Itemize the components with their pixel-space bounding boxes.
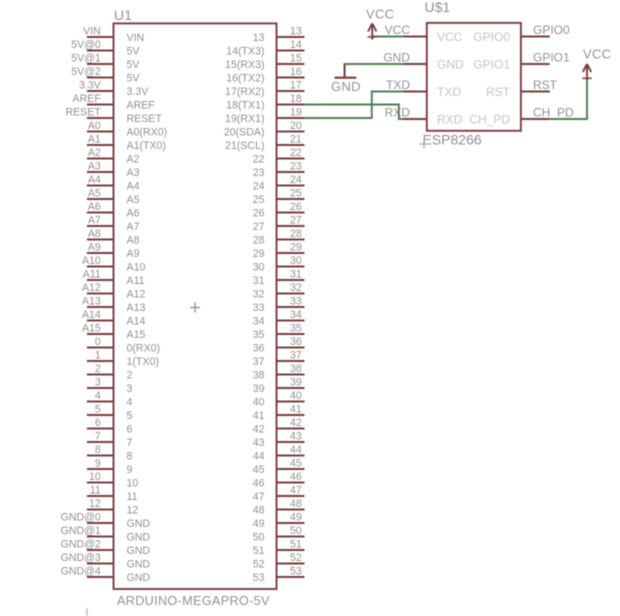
U1 pin right: 41 — [253, 403, 305, 422]
svg-text:U$1: U$1 — [425, 0, 451, 15]
svg-text:49: 49 — [253, 518, 265, 530]
svg-text:22: 22 — [290, 147, 302, 159]
svg-text:AREF: AREF — [73, 93, 102, 105]
svg-text:4: 4 — [95, 390, 101, 402]
svg-text:5V@0: 5V@0 — [71, 39, 101, 51]
svg-text:47: 47 — [253, 491, 265, 503]
wire net RX: U1 pin 19(RX1) to U$1 TXD — [305, 92, 404, 119]
svg-text:25: 25 — [253, 194, 265, 206]
U$1 pin right: GPIO1 — [473, 50, 570, 71]
svg-text:40: 40 — [290, 390, 302, 402]
svg-text:A13: A13 — [127, 302, 146, 314]
svg-text:VCC: VCC — [583, 47, 611, 62]
svg-text:GND@0: GND@0 — [61, 511, 101, 523]
svg-text:RESET: RESET — [65, 106, 101, 118]
svg-text:44: 44 — [290, 444, 302, 456]
svg-text:51: 51 — [253, 545, 265, 557]
svg-text:30: 30 — [290, 255, 302, 267]
svg-text:19: 19 — [290, 106, 302, 118]
svg-text:TXD: TXD — [437, 85, 461, 99]
U1 pin 4 left: 5V@2 — [71, 66, 140, 85]
svg-text:RESET: RESET — [127, 113, 163, 125]
svg-text:39: 39 — [290, 376, 302, 388]
U1 pin 1 left: VIN — [83, 25, 144, 44]
svg-text:11: 11 — [90, 484, 101, 496]
svg-text:5: 5 — [95, 403, 101, 415]
svg-text:48: 48 — [253, 505, 265, 517]
svg-text:36: 36 — [253, 343, 265, 355]
svg-text:21: 21 — [290, 133, 302, 145]
svg-text:A1(TX0): A1(TX0) — [127, 140, 166, 152]
svg-text:25: 25 — [290, 187, 302, 199]
svg-text:43: 43 — [253, 437, 265, 449]
svg-text:A6: A6 — [88, 201, 101, 213]
svg-text:A4: A4 — [88, 174, 101, 186]
svg-text:GND: GND — [127, 532, 151, 544]
svg-text:GND: GND — [331, 79, 361, 94]
U1 pin right: 16 — [226, 66, 304, 85]
svg-text:30: 30 — [253, 262, 265, 274]
U$1 pin right: CH_PD — [469, 105, 574, 126]
svg-text:A6: A6 — [127, 208, 140, 220]
svg-text:GND: GND — [437, 57, 464, 71]
svg-text:A1: A1 — [88, 133, 101, 145]
svg-text:RXD: RXD — [437, 112, 463, 126]
svg-text:44: 44 — [253, 451, 265, 463]
svg-text:GND: GND — [383, 50, 410, 64]
svg-text:9: 9 — [95, 457, 101, 469]
svg-text:15(RX3): 15(RX3) — [225, 59, 264, 71]
svg-text:3: 3 — [127, 383, 133, 395]
U1 pin 9 left: A1 — [87, 133, 166, 152]
svg-text:14(TX3): 14(TX3) — [226, 46, 264, 58]
svg-text:52: 52 — [290, 552, 302, 564]
U1 pin right: 46 — [253, 471, 305, 490]
svg-text:15: 15 — [290, 52, 302, 64]
U1 pin 28 left: 4 — [87, 390, 133, 409]
svg-text:A3: A3 — [88, 160, 101, 172]
svg-text:GND: GND — [127, 559, 151, 571]
svg-text:14: 14 — [290, 39, 302, 51]
svg-text:23: 23 — [253, 167, 265, 179]
svg-text:11: 11 — [127, 491, 138, 503]
svg-text:A14: A14 — [127, 316, 146, 328]
U1 pin 14 left: A6 — [87, 201, 140, 220]
svg-text:37: 37 — [290, 349, 302, 361]
svg-text:A15: A15 — [127, 329, 146, 341]
U1 pin 21 left: A13 — [82, 295, 146, 314]
svg-text:6: 6 — [95, 417, 101, 429]
svg-text:7: 7 — [95, 430, 101, 442]
U1 pin 33 left: 9 — [87, 457, 133, 476]
svg-text:3.3V: 3.3V — [79, 79, 102, 91]
U1 pin right: 32 — [253, 282, 305, 301]
svg-text:RXD: RXD — [385, 105, 411, 119]
svg-text:VIN: VIN — [127, 32, 145, 44]
wire net VCC: U$1 CH_PD to VCC (right) — [550, 78, 587, 119]
svg-text:2: 2 — [127, 370, 133, 382]
svg-text:45: 45 — [290, 457, 302, 469]
U1 pin right: 33 — [253, 295, 305, 314]
U1 pin 30 left: 6 — [87, 417, 133, 436]
svg-text:48: 48 — [290, 498, 302, 510]
svg-text:GPIO1: GPIO1 — [533, 50, 570, 64]
svg-text:26: 26 — [290, 201, 302, 213]
svg-text:A8: A8 — [88, 228, 101, 240]
svg-text:45: 45 — [253, 464, 265, 476]
wire net VCC to U$1 VCC pin — [372, 36, 403, 38]
svg-text:A2: A2 — [88, 147, 101, 159]
svg-text:A7: A7 — [88, 214, 101, 226]
svg-text:43: 43 — [290, 430, 302, 442]
svg-text:5V@1: 5V@1 — [71, 52, 101, 64]
U1 pin 19 left: A11 — [83, 268, 145, 287]
svg-text:50: 50 — [253, 532, 265, 544]
U1 pin 37 left: GND@0 — [61, 511, 151, 530]
svg-text:5V@2: 5V@2 — [71, 66, 101, 78]
svg-text:33: 33 — [290, 295, 302, 307]
U1 pin 38 left: GND@1 — [61, 525, 151, 544]
U1 origin cross — [190, 303, 200, 313]
svg-text:A11: A11 — [127, 275, 145, 287]
U1 pin right: 28 — [253, 228, 305, 247]
U1 pin 29 left: 5 — [87, 403, 133, 422]
U1 part anchor tick bottom-left — [86, 608, 88, 616]
svg-text:40: 40 — [253, 397, 265, 409]
U1 pin right: 35 — [253, 322, 305, 341]
U1 pin 12 left: A4 — [87, 174, 140, 193]
U$1 pin left: VCC — [385, 23, 463, 44]
svg-text:31: 31 — [253, 275, 265, 287]
U1 pin 24 left: 0 — [87, 336, 160, 355]
U1 pin 6 left: AREF — [73, 93, 156, 112]
U1 pin 41 left: GND@4 — [61, 565, 151, 584]
U1 pin right: 20 — [224, 120, 305, 139]
svg-text:A0: A0 — [88, 120, 101, 132]
svg-text:0: 0 — [95, 336, 101, 348]
U1 pin right: 51 — [253, 538, 305, 557]
U1 pin right: 24 — [253, 174, 305, 193]
U1 pin 25 left: 1 — [87, 349, 159, 368]
svg-text:A5: A5 — [88, 187, 101, 199]
U1 pin right: 17 — [225, 79, 304, 98]
wire net TX: U1 pin 18(TX1) to U$1 RXD — [305, 105, 404, 120]
U1 pin 13 left: A5 — [87, 187, 140, 206]
U1 pin right: 39 — [253, 376, 305, 395]
svg-text:5V: 5V — [127, 73, 141, 85]
U1 pin 39 left: GND@2 — [61, 538, 151, 557]
U1 pin right: 36 — [253, 336, 305, 355]
U1 pin right: 22 — [253, 147, 305, 166]
svg-text:13: 13 — [253, 32, 265, 44]
svg-text:10: 10 — [89, 471, 101, 483]
svg-text:18(TX1): 18(TX1) — [226, 100, 264, 112]
svg-text:AREF: AREF — [127, 100, 156, 112]
U1 pin right: 53 — [253, 565, 305, 584]
svg-text:0(RX0): 0(RX0) — [127, 343, 161, 355]
svg-text:A5: A5 — [127, 194, 140, 206]
svg-text:20(SDA): 20(SDA) — [224, 127, 265, 139]
svg-text:GND: GND — [127, 545, 151, 557]
svg-text:41: 41 — [290, 403, 302, 415]
svg-text:1(TX0): 1(TX0) — [127, 356, 159, 368]
U1 pin right: 18 — [226, 93, 304, 112]
svg-text:46: 46 — [290, 471, 302, 483]
svg-text:41: 41 — [253, 410, 265, 422]
ground symbol GND — [331, 64, 361, 94]
U1 pin 31 left: 7 — [87, 430, 133, 449]
svg-text:5V: 5V — [127, 59, 141, 71]
U1 pin right: 52 — [253, 552, 305, 571]
svg-text:13: 13 — [290, 25, 302, 37]
U1 pin 17 left: A9 — [87, 241, 140, 260]
U1 pin right: 48 — [253, 498, 305, 517]
U$1 pin right: GPIO0 — [473, 23, 570, 44]
svg-text:27: 27 — [253, 221, 265, 233]
svg-text:A4: A4 — [127, 181, 140, 193]
svg-text:VIN: VIN — [83, 25, 101, 37]
U1 pin right: 42 — [253, 417, 305, 436]
svg-text:29: 29 — [253, 248, 265, 260]
supply symbol VCC (right) — [582, 64, 591, 80]
U1 pin 23 left: A15 — [82, 322, 146, 341]
svg-text:31: 31 — [290, 268, 302, 280]
svg-text:24: 24 — [253, 181, 265, 193]
svg-text:17(RX2): 17(RX2) — [225, 86, 264, 98]
svg-text:GND@4: GND@4 — [61, 565, 101, 577]
svg-text:ESP8266: ESP8266 — [423, 132, 482, 148]
U1 pin 11 left: A3 — [87, 160, 140, 179]
svg-text:27: 27 — [290, 214, 302, 226]
svg-text:17: 17 — [290, 79, 302, 91]
U1 pin 8 left: A0 — [87, 120, 167, 139]
U1 pin right: 29 — [253, 241, 305, 260]
U1 pin right: 50 — [253, 525, 305, 544]
U1 pin right: 30 — [253, 255, 305, 274]
svg-text:28: 28 — [253, 235, 265, 247]
svg-text:GND@3: GND@3 — [61, 552, 101, 564]
svg-text:GPIO0: GPIO0 — [473, 30, 510, 44]
U1 pin 35 left: 11 — [87, 484, 138, 503]
U1 pin right: 27 — [253, 214, 305, 233]
U1 pin 36 left: 12 — [87, 498, 138, 517]
svg-text:24: 24 — [290, 174, 302, 186]
svg-text:A11: A11 — [83, 268, 101, 280]
U$1 origin cross — [420, 140, 429, 149]
U1 pin 40 left: GND@3 — [61, 552, 151, 571]
svg-text:36: 36 — [290, 336, 302, 348]
svg-text:GND@2: GND@2 — [61, 538, 101, 550]
svg-text:18: 18 — [290, 93, 302, 105]
svg-text:RST: RST — [486, 85, 511, 99]
svg-text:8: 8 — [95, 444, 101, 456]
U1 pin right: 43 — [253, 430, 305, 449]
svg-text:5V: 5V — [127, 46, 141, 58]
U1 pin right: 47 — [253, 484, 305, 503]
IC U1 body ARDUINO-MEGAPRO-5V — [114, 23, 277, 589]
svg-text:A7: A7 — [127, 221, 140, 233]
svg-text:23: 23 — [290, 160, 302, 172]
svg-text:51: 51 — [290, 538, 302, 550]
U1 pin right: 19 — [225, 106, 304, 125]
supply symbol VCC (left) — [368, 23, 378, 39]
U1 pin 3 left: 5V@1 — [71, 52, 140, 71]
svg-text:CH_PD: CH_PD — [533, 105, 574, 119]
svg-text:ARDUINO-MEGAPRO-5V: ARDUINO-MEGAPRO-5V — [117, 594, 270, 608]
U1 pin 2 left: 5V@0 — [71, 39, 140, 58]
U1 pin right: 23 — [253, 160, 305, 179]
U1 pin 15 left: A7 — [87, 214, 140, 233]
svg-text:10: 10 — [127, 478, 139, 490]
svg-text:GPIO0: GPIO0 — [533, 23, 570, 37]
svg-text:A8: A8 — [127, 235, 140, 247]
U1 pin right: 37 — [253, 349, 305, 368]
svg-text:16: 16 — [290, 66, 302, 78]
svg-text:22: 22 — [253, 154, 265, 166]
svg-text:VCC: VCC — [385, 23, 411, 37]
svg-text:1: 1 — [95, 349, 101, 361]
svg-text:32: 32 — [290, 282, 302, 294]
svg-text:32: 32 — [253, 289, 265, 301]
svg-text:A0(RX0): A0(RX0) — [127, 127, 168, 139]
U1 pin 34 left: 10 — [87, 471, 138, 490]
U1 pin right: 45 — [253, 457, 305, 476]
IC U$1 body ESP8266 — [427, 23, 521, 131]
svg-text:U1: U1 — [114, 7, 132, 23]
svg-text:CH_PD: CH_PD — [469, 112, 510, 126]
svg-text:A9: A9 — [127, 248, 140, 260]
U1 pin 5 left: 3.3V — [79, 79, 149, 98]
U1 pin right: 21 — [225, 133, 304, 152]
svg-text:A12: A12 — [127, 289, 146, 301]
U$1 pin left: TXD — [386, 78, 461, 99]
svg-text:34: 34 — [253, 316, 265, 328]
svg-text:9: 9 — [127, 464, 133, 476]
U1 pin 18 left: A10 — [82, 255, 146, 274]
U1 pin 20 left: A12 — [82, 282, 146, 301]
U$1 pin left: RXD — [385, 105, 463, 126]
U1 pin right: 26 — [253, 201, 305, 220]
U1 pin right: 44 — [253, 444, 305, 463]
svg-text:16(TX2): 16(TX2) — [226, 73, 264, 85]
U1 pin right: 34 — [253, 309, 305, 328]
svg-text:47: 47 — [290, 484, 302, 496]
svg-text:42: 42 — [253, 424, 265, 436]
U$1 pin left: GND — [383, 50, 464, 71]
svg-text:VCC: VCC — [366, 7, 394, 22]
svg-text:42: 42 — [290, 417, 302, 429]
svg-text:8: 8 — [127, 451, 133, 463]
svg-text:GND@1: GND@1 — [61, 525, 101, 537]
U1 pin right: 49 — [253, 511, 305, 530]
svg-text:29: 29 — [290, 241, 302, 253]
U1 pin 10 left: A2 — [87, 147, 140, 166]
svg-text:A13: A13 — [82, 295, 101, 307]
svg-text:3.3V: 3.3V — [127, 86, 150, 98]
svg-text:A12: A12 — [82, 282, 101, 294]
U1 pin 16 left: A8 — [87, 228, 140, 247]
svg-text:46: 46 — [253, 478, 265, 490]
svg-text:53: 53 — [253, 572, 265, 584]
U1 pin right: 38 — [253, 363, 305, 382]
svg-text:12: 12 — [127, 505, 139, 517]
U1 pin 32 left: 8 — [87, 444, 133, 463]
U1 pin right: 40 — [253, 390, 305, 409]
U1 pin 26 left: 2 — [87, 363, 133, 382]
U$1 pin right: RST — [486, 78, 558, 99]
svg-text:A10: A10 — [82, 255, 101, 267]
svg-text:6: 6 — [127, 424, 133, 436]
U1 pin right: 31 — [253, 268, 305, 287]
svg-text:VCC: VCC — [437, 30, 463, 44]
svg-text:38: 38 — [253, 370, 265, 382]
svg-text:19(RX1): 19(RX1) — [225, 113, 264, 125]
svg-text:49: 49 — [290, 511, 302, 523]
svg-text:7: 7 — [127, 437, 133, 449]
svg-text:A15: A15 — [82, 322, 101, 334]
svg-text:A2: A2 — [127, 154, 140, 166]
svg-text:TXD: TXD — [386, 78, 410, 92]
U1 pin right: 15 — [225, 52, 304, 71]
svg-text:33: 33 — [253, 302, 265, 314]
svg-text:4: 4 — [127, 397, 133, 409]
svg-text:37: 37 — [253, 356, 265, 368]
wire net GND to U$1 GND pin — [345, 64, 404, 77]
U1 pin 7 left: RESET — [65, 106, 162, 125]
svg-text:GND: GND — [127, 518, 151, 530]
svg-text:34: 34 — [290, 309, 302, 321]
svg-text:53: 53 — [290, 565, 302, 577]
svg-text:38: 38 — [290, 363, 302, 375]
U1 pin right: 14 — [226, 39, 304, 58]
svg-text:2: 2 — [95, 363, 101, 375]
svg-text:A9: A9 — [88, 241, 101, 253]
U1 pin right: 25 — [253, 187, 305, 206]
svg-text:A14: A14 — [82, 309, 101, 321]
svg-text:12: 12 — [89, 498, 101, 510]
svg-text:A3: A3 — [127, 167, 140, 179]
svg-text:50: 50 — [290, 525, 302, 537]
svg-text:GPIO1: GPIO1 — [473, 57, 510, 71]
svg-text:52: 52 — [253, 559, 265, 571]
svg-text:RST: RST — [533, 78, 558, 92]
svg-text:35: 35 — [290, 322, 302, 334]
svg-text:A10: A10 — [127, 262, 146, 274]
U1 pin 22 left: A14 — [82, 309, 146, 328]
svg-text:35: 35 — [253, 329, 265, 341]
U1 pin 27 left: 3 — [87, 376, 133, 395]
svg-text:26: 26 — [253, 208, 265, 220]
svg-text:20: 20 — [290, 120, 302, 132]
U1 pin right: 13 — [253, 25, 305, 44]
svg-text:28: 28 — [290, 228, 302, 240]
svg-text:GND: GND — [127, 572, 151, 584]
svg-text:39: 39 — [253, 383, 265, 395]
svg-text:5: 5 — [127, 410, 133, 422]
svg-text:3: 3 — [95, 376, 101, 388]
svg-text:21(SCL): 21(SCL) — [225, 140, 264, 152]
